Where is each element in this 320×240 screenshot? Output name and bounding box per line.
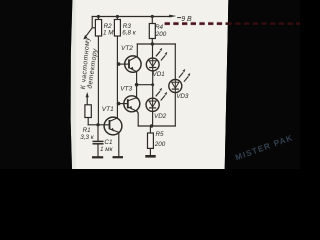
ground under VT1 emitter — [113, 156, 124, 158]
wire VD3 bottom lead — [174, 92, 176, 126]
node mid tap right — [151, 83, 154, 86]
wire C1 bottom lead — [97, 144, 99, 156]
node mid tap left — [135, 83, 139, 87]
wire C1 top lead — [97, 125, 99, 141]
arrow supply rail end — [169, 15, 176, 18]
wire mid tap VT stage to LED chain — [137, 84, 153, 86]
wire R2 top lead — [97, 17, 99, 20]
wire VT3 emitter drop — [137, 111, 138, 126]
svg-text:3,3 к: 3,3 к — [80, 134, 95, 141]
wire R5 bottom lead — [149, 148, 151, 155]
wire R2 bottom lead down to VT1 base node — [97, 36, 99, 125]
wire VT2 collector riser — [136, 44, 138, 56]
svg-text:C1: C1 — [104, 139, 112, 146]
node bottom junction — [150, 124, 153, 127]
junction dots — [96, 15, 154, 128]
wire input diagonal to detector — [85, 28, 92, 37]
transistor VT3 — [124, 96, 140, 112]
svg-text:6,8 к: 6,8 к — [122, 29, 137, 36]
arrow input top terminal — [83, 35, 87, 40]
svg-text:VD3: VD3 — [176, 93, 189, 100]
ground under C1 — [92, 156, 103, 158]
svg-text:VD1: VD1 — [153, 71, 165, 78]
red dashed tuning line over black bar — [226, 22, 300, 25]
svg-text:1 мк: 1 мк — [100, 146, 114, 153]
svg-text:VT1: VT1 — [102, 106, 114, 113]
wire R3 top lead — [116, 17, 118, 20]
svg-text:200: 200 — [155, 31, 167, 38]
node rail-R4 — [151, 15, 154, 18]
wire VT1 emitter drop — [118, 132, 120, 156]
node R4-VD1 — [151, 42, 154, 45]
wire top supply rail — [92, 16, 170, 18]
wire VT1 base wire — [88, 124, 109, 126]
LED VD2 — [146, 88, 167, 112]
resistor R1 — [85, 105, 91, 118]
node rail-R2 — [97, 15, 100, 18]
resistor R2 — [95, 20, 101, 37]
wire VT2 base wire — [117, 63, 129, 65]
node VT2 base — [117, 62, 121, 66]
red dashed tuning line paper part — [165, 22, 227, 25]
LED VD3 — [169, 69, 191, 93]
node VT1 base / C1 — [96, 123, 99, 126]
wire rail left corner drop — [92, 17, 95, 28]
svg-text:VT3: VT3 — [120, 85, 132, 92]
LED VD1 — [146, 48, 167, 71]
arrow input terminal above R1 — [86, 92, 89, 97]
resistor R4 — [149, 24, 155, 39]
wire VT2 emitter to VT3 collector — [136, 72, 138, 99]
wire VD1-VD2 link — [152, 71, 154, 99]
svg-text:1 М: 1 М — [103, 29, 114, 36]
wire VD2 bottom lead — [152, 111, 154, 126]
red dashed tuning line halo (paper part) — [165, 22, 226, 26]
node VT3 base — [117, 102, 121, 106]
paper background — [71, 0, 229, 169]
wire R3 bottom lead down through base taps to VT1 collector — [116, 36, 118, 118]
black side bars — [0, 0, 72, 169]
paper left edge shading — [71, 0, 76, 169]
svg-text:200: 200 — [154, 141, 166, 148]
svg-text:R5: R5 — [156, 131, 165, 138]
wire horizontal collector bus y44 — [137, 43, 175, 45]
wire bottom junction bus y126 — [138, 125, 175, 127]
wire R5 top lead — [149, 126, 151, 133]
wire R4 top lead — [151, 17, 153, 24]
svg-text:VD2: VD2 — [154, 113, 167, 120]
resistor R5 — [148, 133, 154, 148]
wire VT3 base wire — [117, 103, 127, 105]
resistor R3 — [114, 20, 120, 37]
transistor VT1 — [104, 117, 122, 135]
wire VD3 top lead — [174, 44, 176, 80]
wire input terminal lead above R1 — [86, 97, 88, 105]
node rail-R3 — [116, 15, 119, 18]
svg-text:R1: R1 — [83, 127, 91, 134]
capacitor C1 — [93, 141, 104, 143]
wire VD1 top lead — [152, 44, 154, 58]
wire R1 bottom lead to base wire — [87, 118, 89, 125]
svg-text:VT2: VT2 — [121, 45, 133, 52]
wire R4 bottom lead — [151, 39, 153, 45]
ground under R5 — [145, 155, 155, 158]
transistor VT2 — [125, 56, 141, 72]
